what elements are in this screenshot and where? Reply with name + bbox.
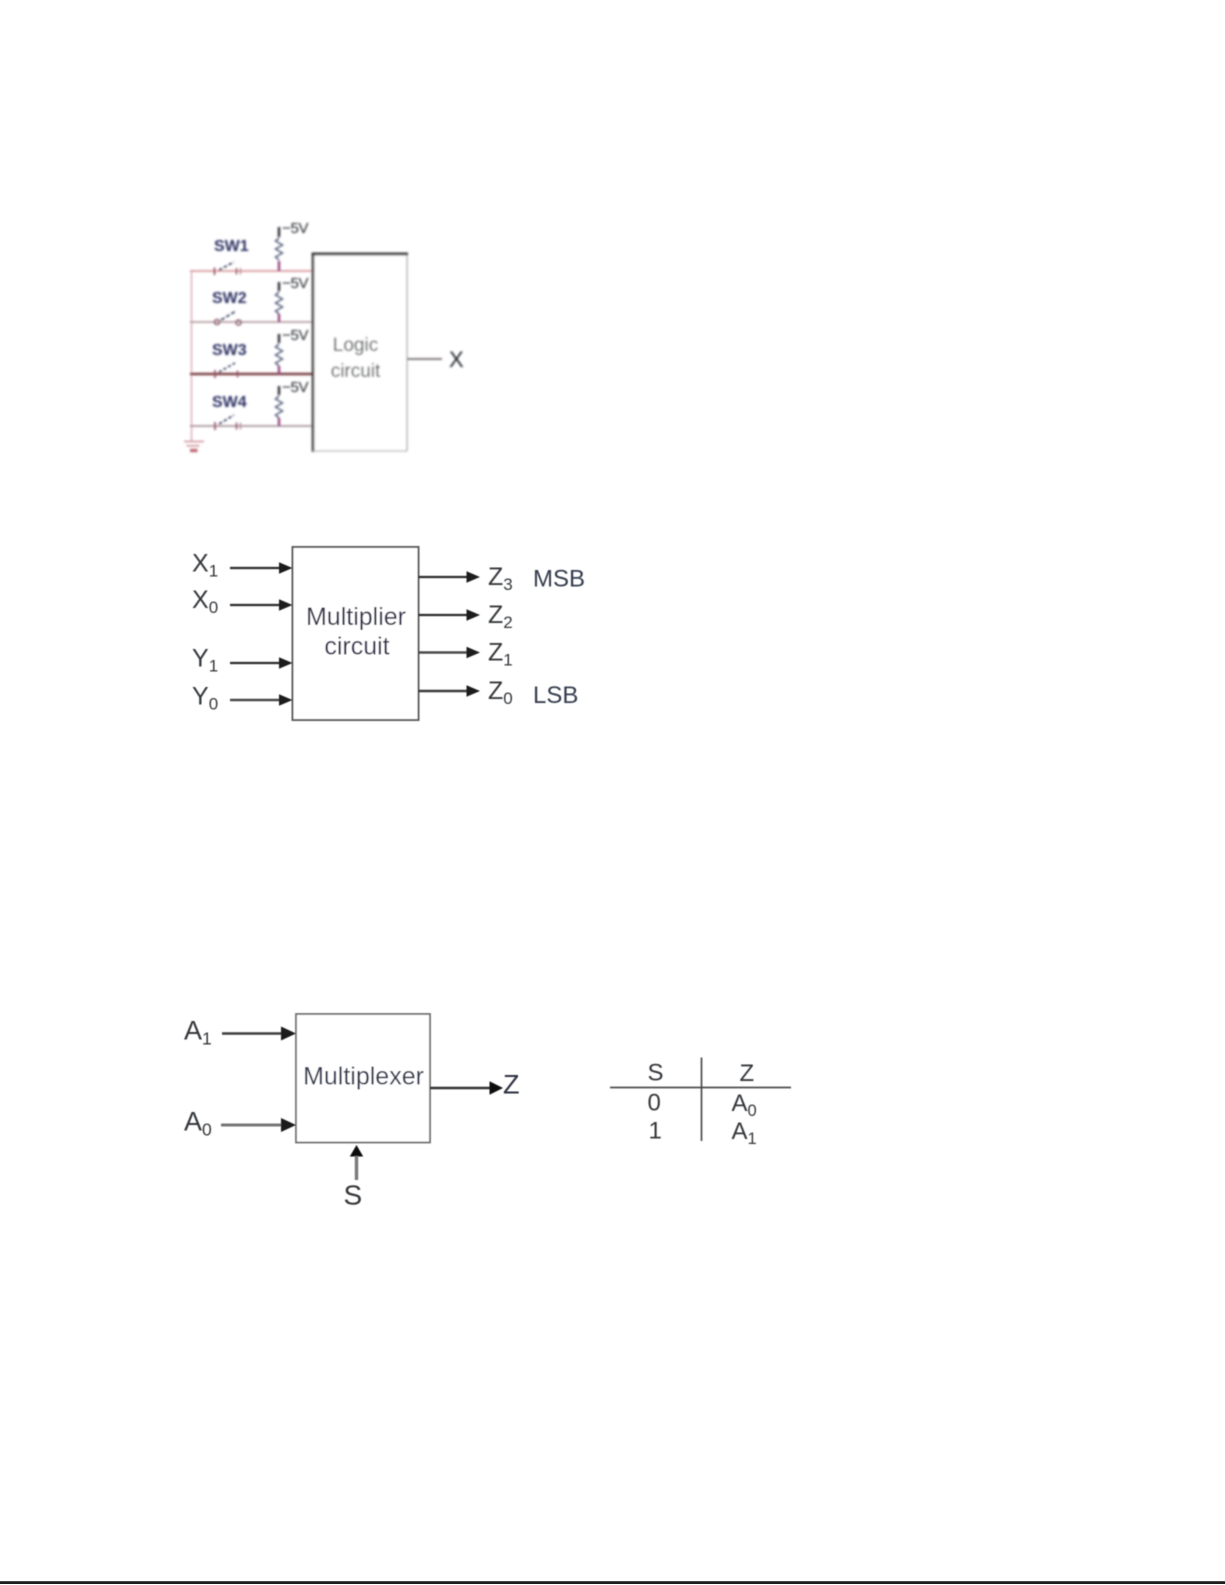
switch SW4 xyxy=(212,394,247,430)
switch SW3 xyxy=(212,342,247,378)
node Z1 output xyxy=(419,639,513,670)
svg-text:SW1: SW1 xyxy=(214,238,249,255)
svg-text:SW2: SW2 xyxy=(212,290,247,307)
svg-text:A1: A1 xyxy=(184,1016,212,1049)
svg-text:Multiplier: Multiplier xyxy=(306,603,406,631)
ground xyxy=(184,442,204,446)
resistor R2 (row 2) xyxy=(276,275,309,322)
node Z0 output (LSB) xyxy=(419,677,579,709)
wire: SW2 row horizontal xyxy=(190,321,313,323)
resistor R3 (row 3) xyxy=(276,327,309,374)
wire: output X xyxy=(407,358,442,360)
svg-text:circuit: circuit xyxy=(324,633,389,661)
svg-text:X1: X1 xyxy=(192,550,218,581)
block U3: Multiplexer xyxy=(296,1014,430,1143)
svg-text:Logic: Logic xyxy=(333,335,378,356)
svg-text:−5V: −5V xyxy=(282,220,309,237)
table line horizontal xyxy=(610,1087,791,1089)
node X0 input xyxy=(192,586,293,617)
truth table xyxy=(610,1058,791,1149)
svg-text:−5V: −5V xyxy=(282,327,309,344)
svg-text:X0: X0 xyxy=(192,586,218,617)
svg-text:S: S xyxy=(648,1060,664,1087)
node S select input xyxy=(344,1145,364,1211)
svg-text:Z: Z xyxy=(503,1070,520,1100)
svg-text:MSB: MSB xyxy=(533,566,585,593)
logic circuit box U1 xyxy=(312,253,409,453)
svg-text:SW4: SW4 xyxy=(212,394,247,411)
svg-text:A0: A0 xyxy=(732,1090,757,1120)
svg-text:LSB: LSB xyxy=(533,682,578,709)
resistor R4 (row 4) xyxy=(276,379,309,426)
node Z3 output (MSB) xyxy=(419,563,586,594)
svg-text:Y0: Y0 xyxy=(192,683,218,714)
svg-text:−5V: −5V xyxy=(282,379,309,396)
svg-text:−5V: −5V xyxy=(282,275,309,292)
switch SW1 xyxy=(214,238,249,275)
node A1 input xyxy=(184,1016,296,1049)
svg-text:circuit: circuit xyxy=(331,361,381,382)
svg-text:1: 1 xyxy=(649,1118,662,1145)
footer rule xyxy=(0,1581,1225,1584)
node Y1 input xyxy=(192,645,293,676)
svg-text:A1: A1 xyxy=(732,1118,757,1148)
svg-text:Y1: Y1 xyxy=(192,645,218,676)
node Y0 input xyxy=(192,683,293,714)
svg-text:Multiplexer: Multiplexer xyxy=(303,1063,424,1091)
block U2: Multiplier circuit xyxy=(293,547,419,720)
svg-text:X: X xyxy=(449,347,464,372)
svg-text:SW3: SW3 xyxy=(212,342,247,359)
wire: SW4 row horizontal xyxy=(190,425,313,427)
node Z output xyxy=(430,1070,520,1100)
svg-text:A0: A0 xyxy=(184,1107,212,1140)
resistor R1 (pull-down to -5V, row 1) xyxy=(276,220,309,271)
table line vertical xyxy=(701,1058,703,1142)
node A0 input xyxy=(184,1107,296,1140)
wire: SW3 row horizontal xyxy=(190,373,313,375)
svg-text:Z1: Z1 xyxy=(488,639,513,670)
svg-text:Z3: Z3 xyxy=(488,563,513,594)
svg-text:Z2: Z2 xyxy=(488,601,513,632)
wire: left vertical bus xyxy=(191,271,193,441)
svg-text:Z: Z xyxy=(740,1060,755,1087)
wire: SW1 row horizontal xyxy=(190,270,313,272)
svg-text:0: 0 xyxy=(648,1090,661,1117)
node X1 input xyxy=(192,550,293,581)
svg-text:Z0: Z0 xyxy=(488,677,513,708)
svg-text:S: S xyxy=(344,1180,363,1211)
switch SW2 xyxy=(212,290,247,325)
node Z2 output xyxy=(419,601,513,632)
